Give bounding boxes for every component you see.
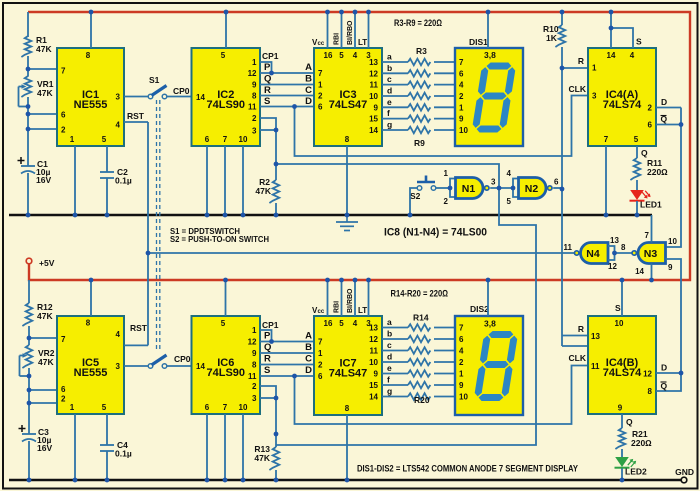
svg-text:8: 8 <box>345 135 350 144</box>
svg-text:7: 7 <box>645 231 650 240</box>
resistor R11 <box>630 158 640 180</box>
svg-text:C: C <box>305 354 312 365</box>
wire +5V to R12 <box>28 280 30 303</box>
svg-text:74LS47: 74LS47 <box>329 368 368 380</box>
svg-text:9: 9 <box>668 263 673 272</box>
wire S2-N1 <box>436 187 450 189</box>
wire IC1 pin8 <box>90 12 92 48</box>
wire IC7 pin5 <box>341 280 343 316</box>
wire N3 pin7 gnd <box>651 215 653 243</box>
nand gate N1 <box>456 178 484 199</box>
wire D to CLK IC4A <box>295 96 589 157</box>
wire IC4A pin5 Q <box>636 146 638 158</box>
svg-text:DIS2: DIS2 <box>470 304 489 314</box>
svg-text:CP0: CP0 <box>174 354 191 364</box>
svg-text:7: 7 <box>604 135 609 144</box>
resistor R7 <box>408 104 430 111</box>
resistor R15 <box>408 336 430 343</box>
svg-text:6: 6 <box>459 69 464 78</box>
svg-text:7: 7 <box>61 335 66 344</box>
wire N1 out to bottom reset <box>276 188 536 445</box>
svg-text:16: 16 <box>324 51 333 60</box>
svg-text:C: C <box>305 85 312 96</box>
wire IC3 pin3 <box>368 12 370 48</box>
svg-text:D: D <box>661 97 667 107</box>
svg-text:S1: S1 <box>149 75 160 85</box>
svg-text:3,8: 3,8 <box>484 50 496 60</box>
wire segment row 5 <box>382 106 408 108</box>
wire IC6 pin6 <box>206 414 208 480</box>
svg-text:10: 10 <box>615 319 624 328</box>
wire D to CLK IC4B <box>295 366 589 425</box>
svg-text:8: 8 <box>621 243 626 252</box>
wire pin6 IC5 <box>29 389 57 391</box>
wire C3-gnd <box>28 441 30 480</box>
svg-text:6: 6 <box>459 335 464 344</box>
RST wire IC5 pin4 <box>124 344 148 346</box>
resistor R10 <box>555 25 565 47</box>
svg-text:6: 6 <box>61 385 66 394</box>
wire ladder <box>260 95 314 97</box>
S1 dashed link <box>156 100 158 351</box>
svg-text:7: 7 <box>318 338 323 347</box>
wire segment row 1 <box>382 61 408 63</box>
svg-text:IC8 (N1-N4) = 74LS00: IC8 (N1-N4) = 74LS00 <box>384 227 487 239</box>
svg-text:N4: N4 <box>586 248 600 260</box>
wire IC4B Qbar <box>656 373 681 391</box>
svg-text:8: 8 <box>252 361 257 370</box>
svg-text:1: 1 <box>252 58 257 67</box>
wire segment row 8 <box>382 327 408 329</box>
svg-text:1: 1 <box>444 169 449 178</box>
svg-text:1K: 1K <box>546 33 558 43</box>
svg-text:14: 14 <box>196 93 205 102</box>
svg-text:R9: R9 <box>414 138 425 148</box>
svg-text:N2: N2 <box>525 183 539 195</box>
svg-text:R14-R20 = 220Ω: R14-R20 = 220Ω <box>391 289 449 300</box>
wire IC4A Qbar <box>656 124 681 126</box>
wire pin2 IC1 <box>28 128 57 130</box>
svg-text:R: R <box>578 324 584 334</box>
svg-text:A: A <box>305 62 312 73</box>
svg-text:0.1µ: 0.1µ <box>115 449 132 459</box>
svg-text:10: 10 <box>459 126 468 135</box>
wire segment row 6 <box>382 118 408 120</box>
svg-text:8: 8 <box>648 387 653 396</box>
wire segment row 9 <box>382 338 408 340</box>
svg-text:0.1µ: 0.1µ <box>115 176 132 186</box>
wire RST horizontal to N4 <box>148 252 576 254</box>
svg-text:RST: RST <box>127 111 145 121</box>
wire IC4A pin14 <box>610 12 612 48</box>
svg-text:6: 6 <box>205 403 210 412</box>
display DIS2 <box>455 316 523 415</box>
resistor R8 <box>408 115 430 122</box>
pushbutton S2 <box>417 181 435 184</box>
resistor R4 <box>408 70 430 77</box>
svg-text:14: 14 <box>369 126 378 135</box>
wire pin7 IC5 <box>29 337 57 339</box>
svg-text:N3: N3 <box>644 248 658 260</box>
wire IC1 pin5 <box>106 146 108 172</box>
svg-text:c: c <box>387 74 392 84</box>
wire ladder <box>260 106 314 108</box>
svg-text:5: 5 <box>634 135 639 144</box>
resistor R17 <box>408 359 430 366</box>
svg-text:47K: 47K <box>37 88 53 98</box>
svg-text:DIS1-DIS2 = LTS542 COMMON ANOD: DIS1-DIS2 = LTS542 COMMON ANODE 7 SEGMEN… <box>357 464 578 474</box>
svg-text:B: B <box>305 74 312 85</box>
wire segment row 13 <box>382 384 408 386</box>
svg-text:BI/RBO: BI/RBO <box>347 20 354 45</box>
wire R1 top <box>27 12 29 37</box>
wire segment row 7 <box>382 129 408 131</box>
GND terminal <box>681 477 687 483</box>
ground rail (middle) <box>9 214 652 216</box>
wire VR2-C3 <box>28 368 30 434</box>
switch S1 top pole <box>148 94 153 99</box>
svg-text:11: 11 <box>370 81 379 90</box>
svg-text:NE555: NE555 <box>74 367 108 379</box>
svg-text:1: 1 <box>70 403 75 412</box>
svg-text:1: 1 <box>459 103 464 112</box>
wire C1-gnd <box>27 173 29 215</box>
svg-text:f: f <box>387 375 390 385</box>
svg-text:1: 1 <box>318 349 323 358</box>
wire R stubs IC4B <box>562 335 588 337</box>
svg-text:47K: 47K <box>254 453 270 463</box>
svg-text:CLK: CLK <box>569 353 587 363</box>
svg-text:a: a <box>387 317 392 327</box>
svg-text:a: a <box>387 52 392 62</box>
wire IC5 pin3 to S1 <box>124 365 148 367</box>
resistor R13 <box>269 447 279 470</box>
svg-text:4: 4 <box>630 51 635 60</box>
wire N3 pin14 vcc <box>651 264 653 281</box>
svg-text:74LS90: 74LS90 <box>206 99 245 111</box>
wire R10 to R net <box>561 47 563 346</box>
svg-text:CP0: CP0 <box>173 86 190 96</box>
svg-text:5: 5 <box>221 51 226 60</box>
svg-text:2: 2 <box>648 104 653 113</box>
svg-text:RST: RST <box>130 323 148 333</box>
svg-text:2: 2 <box>459 358 464 367</box>
svg-text:6: 6 <box>318 103 323 112</box>
wire IC4B pin9 Q <box>621 414 623 428</box>
wire S1-IC2 <box>167 96 192 98</box>
wire R11-LED1 <box>636 180 638 190</box>
svg-text:b: b <box>387 63 392 73</box>
svg-text:10: 10 <box>369 358 378 367</box>
svg-text:11: 11 <box>370 347 379 356</box>
flip-flop IC4B 74LS74 <box>588 316 656 414</box>
svg-text:10: 10 <box>369 92 378 101</box>
svg-text:R20: R20 <box>414 395 430 405</box>
svg-text:2: 2 <box>444 197 449 206</box>
wire IC2 pin10 <box>242 146 244 215</box>
wire ladder <box>260 352 314 354</box>
resistor R3 <box>408 59 430 66</box>
wire IC3 pin4 <box>354 12 356 48</box>
resistor R6 <box>408 93 430 100</box>
wire R10 top <box>561 12 563 25</box>
svg-text:7: 7 <box>459 324 464 333</box>
svg-text:9: 9 <box>374 370 379 379</box>
earth symbol <box>346 215 348 222</box>
svg-text:9: 9 <box>374 103 379 112</box>
wire IC5 pin1 <box>74 414 76 480</box>
svg-text:4: 4 <box>116 330 121 339</box>
flip-flop IC4A 74LS74 <box>588 48 656 146</box>
wire R2 node to N1 out <box>276 164 499 188</box>
svg-text:9: 9 <box>252 81 257 90</box>
svg-text:7: 7 <box>223 403 228 412</box>
svg-text:6: 6 <box>648 121 653 130</box>
wire segment row 10 <box>382 350 408 352</box>
svg-text:CP1: CP1 <box>262 320 279 330</box>
svg-text:12: 12 <box>248 338 257 347</box>
svg-text:9: 9 <box>459 115 464 124</box>
wire N1 input bracket <box>450 179 456 198</box>
wire pin6 IC1 <box>28 113 57 115</box>
svg-text:7: 7 <box>223 135 228 144</box>
resistor R16 <box>408 347 430 354</box>
svg-text:R3: R3 <box>416 46 427 56</box>
nand gate N3 <box>638 243 666 264</box>
wire IC3 pin8 to ground <box>346 146 348 215</box>
svg-text:7: 7 <box>318 69 323 78</box>
wire VR1-C1 <box>27 97 29 166</box>
svg-text:6: 6 <box>554 178 559 187</box>
wire IC7 pin3 <box>368 280 370 316</box>
svg-text:4: 4 <box>459 347 464 356</box>
potentiometer VR1 <box>21 76 31 97</box>
nand gate N4 <box>581 243 609 264</box>
wire IC6 pin5 <box>225 280 227 316</box>
svg-text:5: 5 <box>339 51 344 60</box>
svg-text:S: S <box>615 303 621 313</box>
wire ladder <box>260 364 314 366</box>
svg-text:12: 12 <box>643 370 652 379</box>
wire IC4A pin7 gnd <box>605 146 607 215</box>
svg-text:R: R <box>264 85 271 96</box>
wire IC7 pin16 <box>327 280 329 316</box>
svg-text:12: 12 <box>248 69 257 78</box>
svg-text:2: 2 <box>318 92 323 101</box>
svg-text:16: 16 <box>324 319 333 328</box>
resistor R14 <box>408 324 430 331</box>
junction dots <box>89 10 94 15</box>
svg-text:GND: GND <box>675 467 694 477</box>
svg-text:LED2: LED2 <box>625 467 647 477</box>
svg-text:2: 2 <box>61 126 66 135</box>
wire IC1 pin3 to S1 <box>124 96 148 98</box>
wire IC6 pin7 <box>224 414 226 480</box>
svg-text:12: 12 <box>608 262 617 271</box>
svg-text:Q: Q <box>264 74 271 85</box>
wire IC7 pin8 <box>346 415 348 480</box>
decoder IC7 74LS47 <box>314 316 382 415</box>
svg-text:47K: 47K <box>36 44 52 54</box>
display DIS1 <box>455 48 523 146</box>
svg-text:S2 = PUSH-TO-ON SWITCH: S2 = PUSH-TO-ON SWITCH <box>170 234 269 244</box>
svg-text:11: 11 <box>591 362 600 371</box>
svg-text:RBI: RBI <box>334 301 341 313</box>
svg-text:d: d <box>387 85 392 95</box>
svg-text:3: 3 <box>116 362 121 371</box>
svg-text:74LS74: 74LS74 <box>603 367 642 379</box>
decoder IC3 74LS47 <box>314 48 382 146</box>
svg-text:9: 9 <box>618 404 623 413</box>
svg-text:6: 6 <box>205 135 210 144</box>
svg-text:5: 5 <box>339 319 344 328</box>
resistor R12 <box>22 303 32 326</box>
svg-text:8: 8 <box>86 319 91 328</box>
svg-text:10: 10 <box>668 237 677 246</box>
counter IC2 74LS90 <box>192 48 261 146</box>
counter IC6 74LS90 <box>192 316 261 414</box>
wire R stub IC4A <box>562 67 588 69</box>
wire LED1-gnd <box>636 201 638 215</box>
resistor R9 <box>408 127 430 134</box>
wire pin2 IC5 <box>29 402 57 404</box>
wire segment row 12 <box>382 373 408 375</box>
svg-text:47K: 47K <box>37 311 53 321</box>
svg-text:NE555: NE555 <box>74 99 108 111</box>
svg-text:13: 13 <box>610 236 619 245</box>
svg-text:13: 13 <box>369 58 378 67</box>
svg-text:S: S <box>264 365 270 376</box>
wire IC3 pin5 <box>341 12 343 48</box>
svg-text:b: b <box>387 329 392 339</box>
wire IC1 pin1 <box>74 146 76 215</box>
wire segment row 4 <box>382 95 408 97</box>
svg-text:g: g <box>387 386 392 396</box>
ground rail (bottom) <box>9 479 681 481</box>
wire N2 out to R net <box>553 187 562 189</box>
op IC1 NE555 <box>57 48 124 146</box>
wire IC6 pin2/3 to R13 <box>260 386 276 447</box>
svg-text:+5V: +5V <box>39 258 55 268</box>
svg-text:DIS1: DIS1 <box>469 37 488 47</box>
wire IC4B pin10 S <box>621 280 623 316</box>
svg-text:11: 11 <box>564 243 573 252</box>
wire LED2-gnd <box>621 469 623 481</box>
svg-text:8: 8 <box>86 51 91 60</box>
svg-text:12: 12 <box>369 69 378 78</box>
svg-text:S2: S2 <box>410 191 421 201</box>
wire segment row 3 <box>382 84 408 86</box>
wire IC4A D <box>656 107 681 109</box>
wire IC5 pin5 <box>106 414 108 445</box>
svg-text:R: R <box>264 354 271 365</box>
svg-text:g: g <box>387 119 392 129</box>
svg-text:47K: 47K <box>255 186 271 196</box>
resistor R1 <box>21 36 31 57</box>
capacitor C1 <box>18 160 25 162</box>
capacitor C2 <box>100 171 114 173</box>
svg-text:8: 8 <box>345 404 350 413</box>
svg-text:CLK: CLK <box>569 84 587 94</box>
svg-text:cc: cc <box>318 309 325 315</box>
wire RST vertical <box>147 122 149 345</box>
svg-text:12: 12 <box>369 335 378 344</box>
resistor R5 <box>408 81 430 88</box>
svg-text:5: 5 <box>221 319 226 328</box>
wire N1-N2 <box>490 187 513 189</box>
nand gate N2 <box>519 178 547 199</box>
wire IC2 pin2/3 to R2 <box>260 118 276 180</box>
node pin7 IC1 <box>28 68 57 70</box>
wire N4-N3 <box>615 252 634 254</box>
svg-text:3: 3 <box>491 178 496 187</box>
svg-text:1: 1 <box>318 81 323 90</box>
svg-text:2: 2 <box>318 361 323 370</box>
wire CP1 net bottom <box>260 330 272 342</box>
resistor R21 <box>615 428 625 449</box>
svg-text:16V: 16V <box>37 443 52 453</box>
7-segment digit DIS1 <box>471 63 516 133</box>
svg-text:e: e <box>387 363 392 373</box>
wire Qbar to N3 pin10 <box>666 108 682 248</box>
RST wire IC1 pin4 <box>124 121 148 123</box>
wire IC3 pin16 <box>327 12 329 48</box>
svg-text:2: 2 <box>252 382 257 391</box>
svg-text:13: 13 <box>369 324 378 333</box>
svg-text:3: 3 <box>592 92 597 101</box>
svg-text:4: 4 <box>459 81 464 90</box>
wire R13-gnd <box>275 470 277 480</box>
svg-text:A: A <box>305 331 312 342</box>
svg-text:e: e <box>387 97 392 107</box>
svg-text:5: 5 <box>507 197 512 206</box>
svg-text:15: 15 <box>369 381 378 390</box>
svg-text:14: 14 <box>196 362 205 371</box>
wire segment row 11 <box>382 361 408 363</box>
wire R1-VR1 <box>27 56 29 77</box>
capacitor C4 <box>100 444 114 446</box>
wire ladder <box>260 375 314 377</box>
wire IC7 pin4 <box>354 280 356 316</box>
capacitor C3 <box>19 428 26 430</box>
svg-text:14: 14 <box>369 393 378 402</box>
svg-text:R14: R14 <box>413 313 429 323</box>
timer IC5 NE555 <box>57 316 124 414</box>
svg-text:74LS47: 74LS47 <box>329 99 368 111</box>
svg-text:1: 1 <box>459 370 464 379</box>
svg-text:2: 2 <box>61 395 66 404</box>
svg-text:3: 3 <box>116 93 121 102</box>
svg-text:8: 8 <box>252 92 257 101</box>
svg-text:9: 9 <box>252 349 257 358</box>
svg-text:14: 14 <box>635 267 644 276</box>
svg-text:5: 5 <box>102 403 107 412</box>
svg-text:cc: cc <box>318 41 325 47</box>
wire ladder <box>260 72 314 74</box>
svg-text:1: 1 <box>70 135 75 144</box>
resistor R18 <box>408 370 430 377</box>
svg-text:2: 2 <box>252 114 257 123</box>
wire IC2 pin7 <box>224 146 226 215</box>
svg-text:LT: LT <box>358 38 367 47</box>
svg-text:4: 4 <box>116 121 121 130</box>
svg-text:47K: 47K <box>38 357 54 367</box>
svg-text:3: 3 <box>252 394 257 403</box>
svg-text:7: 7 <box>459 58 464 67</box>
svg-text:d: d <box>387 352 392 362</box>
switch S1 bottom pole <box>148 364 153 369</box>
svg-text:RBI: RBI <box>334 33 341 45</box>
